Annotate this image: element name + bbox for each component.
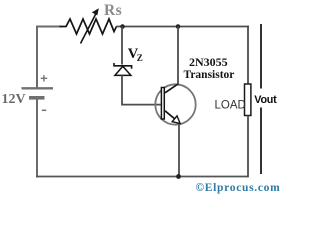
wire: zener branch from top wire	[121, 27, 123, 65]
wire: bottom horizontal	[36, 176, 248, 178]
resistor Rs wiper arrow	[81, 8, 99, 43]
battery BT1 12V top plate (+)	[22, 87, 54, 89]
Vout measurement line upper	[260, 24, 262, 89]
svg-text:LOAD: LOAD	[215, 100, 246, 112]
svg-text:Transistor: Transistor	[184, 69, 235, 81]
node: zener tap junction dot	[120, 24, 125, 29]
transistor base bar	[161, 88, 164, 120]
zener diode VZ anode triangle	[115, 66, 131, 75]
transistor collector diagonal	[165, 84, 179, 93]
transistor emitter diagonal with arrow	[165, 111, 180, 124]
wire: load to bottom wire	[247, 116, 249, 178]
battery minus label	[42, 109, 47, 111]
svg-text:Z: Z	[137, 53, 143, 63]
svg-text:©Elprocus.com: ©Elprocus.com	[196, 182, 281, 194]
wire: top horizontal right of resistor	[116, 26, 249, 28]
transistor Q1 2N3055 body circle	[155, 84, 195, 124]
node: emitter junction dot on bottom wire	[176, 174, 181, 179]
svg-text:2N3055: 2N3055	[189, 55, 228, 69]
wire: top horizontal left segment	[36, 26, 61, 28]
load resistor box	[245, 84, 251, 116]
wire: battery bottom to bottom-left corner	[36, 100, 38, 178]
node: collector tap junction dot	[176, 24, 181, 29]
battery plus label	[41, 75, 48, 82]
svg-text:Vout: Vout	[254, 94, 277, 106]
wire: zener anode down and right to base	[122, 75, 161, 104]
wire: collector up to top wire	[177, 27, 179, 85]
svg-text:12V: 12V	[2, 92, 26, 107]
resistor Rs (variable, zigzag)	[60, 19, 117, 34]
wire: right vertical down to load	[247, 26, 249, 85]
Vout measurement line lower	[260, 108, 262, 175]
battery BT1 12V bottom plate (-)	[29, 96, 45, 100]
zener diode VZ cathode bar	[114, 63, 132, 69]
wire: emitter down to bottom wire	[178, 125, 180, 177]
svg-text:Rs: Rs	[104, 2, 122, 19]
wire: battery top to top-left corner	[36, 27, 38, 88]
